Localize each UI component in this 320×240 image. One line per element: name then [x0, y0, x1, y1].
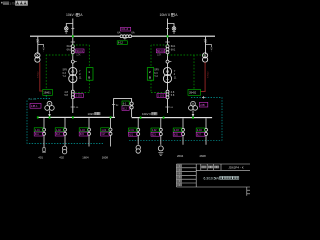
arrow gtx L into bus	[49, 110, 51, 113]
junction tick L	[71, 41, 75, 43]
disconnector branch R	[168, 24, 175, 27]
fence left (cyan dashed)	[27, 98, 103, 143]
CT upper R	[166, 45, 169, 48]
cable dark red R	[201, 62, 206, 91]
CT tick incoming R	[166, 27, 169, 30]
svg-text:1604: 1604	[82, 156, 89, 160]
CT lower2 R	[166, 96, 169, 99]
CT pair outer R	[203, 53, 208, 62]
svg-text:2608: 2608	[200, 154, 207, 158]
svg-text:2JB: 2JB	[200, 103, 205, 107]
arrow gtx R into bus	[192, 110, 194, 113]
svg-text:1·101: 1·101	[75, 95, 82, 98]
cubicle dashed boundary R (green)	[151, 45, 206, 93]
breaker lower L	[71, 93, 74, 96]
feeder R4 CTs	[205, 128, 208, 131]
wire outer feeder L	[37, 37, 39, 54]
title block frame	[177, 164, 251, 187]
svg-text:617: 617	[101, 133, 106, 136]
feeder L3 cabinet tag (green)	[79, 128, 88, 132]
bus tie breaker circles	[120, 35, 123, 38]
svg-text:10kV II: 10kV II	[160, 13, 171, 17]
junction dots (green)	[37, 116, 39, 118]
feeder L1 label (magenta)	[34, 132, 43, 136]
cabinet tag R (green box)	[147, 68, 153, 81]
feeder R1 CTs	[137, 128, 140, 131]
svg-text:B1·35: B1·35	[29, 97, 37, 101]
svg-text:2-01: 2-01	[129, 129, 134, 132]
feeder R1 cabinet tag (green)	[128, 128, 137, 132]
feeder L4 wire	[110, 118, 112, 147]
feeder L2 label (magenta)	[55, 132, 64, 136]
wire main feeder L	[72, 37, 74, 113]
arrester incoming R	[172, 27, 176, 33]
feeder R2 CTs	[159, 128, 162, 131]
tie cabinet tag (green box)	[122, 101, 129, 105]
cubicle dashed boundary L (green)	[46, 45, 89, 93]
transformer T2	[163, 67, 171, 82]
disconnect slash R	[204, 40, 207, 43]
svg-text:2B•B2: 2B•B2	[189, 90, 197, 94]
svg-text:10kV II: 10kV II	[142, 112, 151, 116]
bus II-1 left 10kV busbar	[37, 117, 115, 118]
CT lower L	[71, 51, 74, 54]
arrester branch R	[206, 45, 212, 47]
svg-text:2604: 2604	[177, 154, 184, 158]
svg-text:627: 627	[197, 133, 202, 136]
svg-text:6-1: 6-1	[123, 103, 127, 106]
tie breaker circles	[130, 102, 133, 105]
bus I left section (10kV busbar)	[30, 36, 120, 37]
svg-text:6D•01: 6D•01	[76, 50, 83, 53]
tick tie left leg	[112, 103, 115, 105]
feeder L1 cabinet tag (green)	[34, 128, 43, 132]
feeder L1 CTs	[43, 128, 46, 131]
cabinet tag L (green box)	[87, 68, 93, 81]
CT lower R	[166, 51, 169, 54]
feeder L4 label (magenta)	[101, 132, 110, 136]
svg-text:2-03: 2-03	[174, 129, 179, 132]
svg-text:6A1: 6A1	[171, 49, 176, 52]
feeder R2 earthing PT	[158, 146, 163, 151]
label bus tie (magenta)	[121, 27, 131, 31]
wire outer feeder R	[205, 37, 207, 54]
svg-text:5.8: 5.8	[171, 94, 175, 97]
CT tick incoming L	[71, 27, 74, 30]
grounding transformer 2 (clover)	[189, 101, 198, 110]
tie label (magenta)	[122, 106, 129, 111]
cabinet label below tie (green box)	[117, 41, 127, 45]
breaker main R	[166, 48, 169, 51]
isolator L	[71, 60, 74, 63]
feeder R2 cabinet tag (green)	[151, 128, 160, 132]
wire incoming drop L	[72, 19, 74, 36]
title block rev rows text	[177, 165, 179, 167]
transformer T1	[69, 67, 77, 82]
feeder R4 wire	[205, 118, 207, 145]
label breaker R (magenta)	[156, 49, 164, 53]
feeder R3 cabinet tag (green)	[173, 128, 182, 132]
feeder R2 wire	[160, 118, 162, 145]
svg-text:402: 402	[59, 156, 64, 160]
svg-text:1-04: 1-04	[101, 129, 106, 132]
feeder R3 CTs	[182, 128, 185, 131]
feeder L3 CTs	[88, 128, 91, 131]
label lower breaker L (magenta)	[75, 94, 84, 98]
svg-text:6A: 6A	[117, 31, 120, 35]
feeder R3 wire	[182, 118, 184, 145]
svg-text:2-02: 2-02	[152, 129, 157, 132]
label gtx R (magenta)	[199, 102, 207, 107]
breaker main L	[71, 48, 74, 51]
feeder L1 arrester end	[43, 147, 45, 148]
cable dark red L	[40, 62, 43, 91]
svg-text:621: 621	[129, 133, 134, 136]
svg-text:612: 612	[123, 108, 128, 111]
dashed link L (green)	[45, 55, 47, 90]
load cabinet label R (green box)	[188, 89, 201, 95]
label gtx L (magenta)	[30, 103, 41, 108]
wire incoming drop R	[167, 19, 169, 36]
tick above gtx R	[202, 96, 205, 99]
svg-text:6.3/10.5kV: 6.3/10.5kV	[204, 176, 221, 180]
svg-text:JD62P4 - K: JD62P4 - K	[228, 166, 243, 170]
feeder R4 cabinet tag (green)	[196, 128, 205, 132]
feeder R3 label (magenta)	[173, 132, 182, 136]
CT lower1 L	[71, 90, 74, 93]
CT upper L	[71, 45, 74, 48]
svg-text:613: 613	[56, 133, 61, 136]
feeder L2 cabinet tag (green)	[55, 128, 64, 132]
feeder L4 cabinet tag (green)	[101, 128, 110, 132]
svg-text:YJV22: YJV22	[207, 71, 209, 78]
svg-text:625: 625	[174, 133, 179, 136]
svg-text:B: B	[149, 76, 151, 80]
title block sign cells text	[202, 166, 204, 168]
svg-text:6D•01: 6D•01	[157, 50, 164, 53]
tick right main above bus	[165, 106, 169, 108]
svg-text:6A: 6A	[131, 31, 134, 35]
feeder R4 label (magenta)	[196, 132, 205, 136]
UI toolbar box	[15, 1, 27, 6]
svg-text:1-02: 1-02	[56, 129, 61, 132]
label breaker L (magenta)	[76, 49, 84, 53]
feeder L2 wire	[64, 118, 66, 147]
lower bus tie bridge	[114, 99, 132, 117]
bus I right section (10kV busbar)	[132, 36, 216, 37]
feeder L4 CTs	[109, 128, 112, 131]
arrester branch L	[38, 45, 44, 47]
feeder L2 motor (double circle)	[62, 146, 66, 150]
CT lower1 R	[166, 90, 169, 93]
svg-text:6A1: 6A1	[67, 49, 72, 52]
svg-text:615: 615	[80, 133, 85, 136]
CT lower2 L	[71, 96, 74, 99]
feeder L3 wire	[88, 118, 90, 147]
svg-text:YJV22: YJV22	[38, 71, 40, 78]
wire main feeder R	[167, 37, 169, 113]
fence right (cyan dashed)	[129, 98, 223, 141]
svg-text:1-03: 1-03	[80, 129, 85, 132]
svg-text:1·102: 1·102	[158, 95, 165, 98]
svg-text:401: 401	[38, 156, 43, 160]
svg-text:10kV I: 10kV I	[66, 13, 76, 17]
label lower breaker R (magenta)	[157, 94, 166, 98]
feeder R2 label (magenta)	[151, 132, 160, 136]
CT pair outer L	[35, 53, 40, 62]
breaker lower R	[166, 93, 169, 96]
svg-text:1608: 1608	[102, 156, 109, 160]
feeder L3 label (magenta)	[79, 132, 88, 136]
feeder R1 PT (double circle)	[136, 145, 140, 149]
grounding transformer 1 (clover)	[45, 101, 54, 110]
svg-text:5.8: 5.8	[64, 94, 68, 97]
dashed link R (green)	[193, 55, 195, 89]
UI status text	[1, 2, 3, 4]
tick left main above bus	[71, 106, 75, 108]
svg-text:1-01: 1-01	[35, 129, 40, 132]
load cabinet label L (green box)	[43, 89, 53, 95]
svg-text:1B•B1: 1B•B1	[43, 90, 51, 94]
feeder L1 wire	[43, 118, 45, 147]
svg-text:1ZK: 1ZK	[76, 54, 81, 57]
svg-text:611: 611	[35, 133, 39, 136]
svg-text:623: 623	[152, 133, 157, 136]
svg-text:1JB·1: 1JB·1	[31, 104, 38, 108]
junction tick R	[165, 41, 169, 43]
feeder L2 CTs	[64, 128, 67, 131]
svg-text:1:75: 1:75	[9, 1, 15, 5]
disconnector branch L	[66, 24, 73, 27]
svg-text:1DL•6: 1DL•6	[121, 28, 128, 31]
svg-text:6-12: 6-12	[118, 42, 124, 45]
disconnect slash L	[36, 40, 39, 43]
svg-text:10kV: 10kV	[88, 112, 95, 116]
arrester incoming L	[65, 27, 69, 33]
svg-text:1ZK: 1ZK	[157, 54, 162, 57]
svg-text:2-04: 2-04	[197, 129, 202, 132]
feeder R1 label (magenta)	[128, 132, 137, 136]
bus tie tick	[123, 38, 126, 39]
svg-text:B: B	[88, 76, 90, 80]
isolator R	[166, 60, 169, 63]
feeder R1 wire	[137, 118, 139, 145]
bus II-2 right 10kV busbar	[132, 117, 213, 118]
